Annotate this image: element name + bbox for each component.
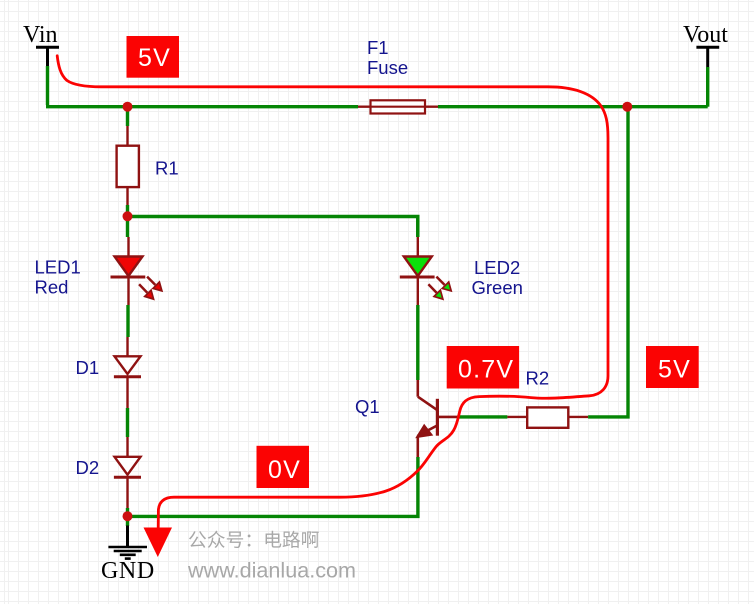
terminal Vout xyxy=(683,22,728,67)
ground xyxy=(108,526,147,559)
badge 5V at Vout branch xyxy=(646,346,699,388)
wire branch bus to LED2 xyxy=(128,217,418,238)
svg-text:Green: Green xyxy=(472,277,523,298)
svg-text:D1: D1 xyxy=(76,357,100,378)
terminal Vin xyxy=(23,22,59,66)
LED1 xyxy=(111,237,162,305)
svg-text:Vout: Vout xyxy=(683,22,728,48)
wire bottom run to Q1 emitter xyxy=(128,457,418,516)
svg-text:0V: 0V xyxy=(268,456,301,484)
wire Vout lead xyxy=(706,67,709,107)
wire D2 to ground node xyxy=(126,508,129,516)
resistor R1 xyxy=(117,126,139,205)
svg-text:LED1: LED1 xyxy=(35,257,81,278)
resistor R2 xyxy=(507,407,588,427)
highlight current path 5V to 0V xyxy=(57,56,608,530)
fuse F1 xyxy=(358,100,438,113)
wire R1 bottom lead xyxy=(126,205,129,216)
transistor Q1 xyxy=(417,380,458,457)
svg-text:LED2: LED2 xyxy=(474,257,520,278)
wire LED1 top xyxy=(126,217,129,238)
diode D2 xyxy=(114,437,141,508)
svg-text:R1: R1 xyxy=(155,158,179,179)
wire GND lead xyxy=(126,516,129,526)
svg-text:Fuse: Fuse xyxy=(367,57,408,78)
svg-text:R2: R2 xyxy=(526,367,550,388)
wire LED1 to D1 xyxy=(126,305,129,337)
wire LED2 top lead xyxy=(416,217,419,238)
badge 0.7V at Q1 base xyxy=(447,346,519,389)
junction node below R1 xyxy=(123,211,133,221)
svg-text:Red: Red xyxy=(35,276,69,297)
svg-text:F1: F1 xyxy=(367,37,389,58)
wire Vin lead down xyxy=(46,66,49,105)
diode D1 xyxy=(114,337,141,408)
svg-text:Vin: Vin xyxy=(23,22,58,48)
svg-text:5V: 5V xyxy=(138,44,171,72)
junction node at Vin bus xyxy=(123,102,133,112)
wire LED2 to Q1 collector xyxy=(416,305,419,380)
LED2 xyxy=(400,237,451,305)
wire R2 to Vout branch xyxy=(588,107,628,417)
svg-text:0.7V: 0.7V xyxy=(458,356,514,384)
svg-text:Q1: Q1 xyxy=(355,396,380,417)
wire Q1 base to R2 xyxy=(457,415,507,418)
svg-text:www.dianlua.com: www.dianlua.com xyxy=(187,558,356,583)
watermark text 公众号：电路啊 xyxy=(189,531,319,548)
wire top bus right: fuse to Vout corner xyxy=(438,105,708,108)
badge 0V at ground path xyxy=(257,446,310,488)
svg-text:D2: D2 xyxy=(76,457,100,478)
svg-text:GND: GND xyxy=(101,558,155,584)
svg-text:5V: 5V xyxy=(658,356,691,384)
wire R1 top lead xyxy=(126,107,129,126)
highlight arrowhead at GND xyxy=(144,528,173,558)
badge 5V at Vin xyxy=(127,36,180,78)
junction node at ground xyxy=(123,511,133,521)
wire D1 to D2 xyxy=(126,408,129,437)
junction node at Vout bus xyxy=(622,102,632,112)
wire top bus left: Vin corner to fuse xyxy=(46,105,358,108)
